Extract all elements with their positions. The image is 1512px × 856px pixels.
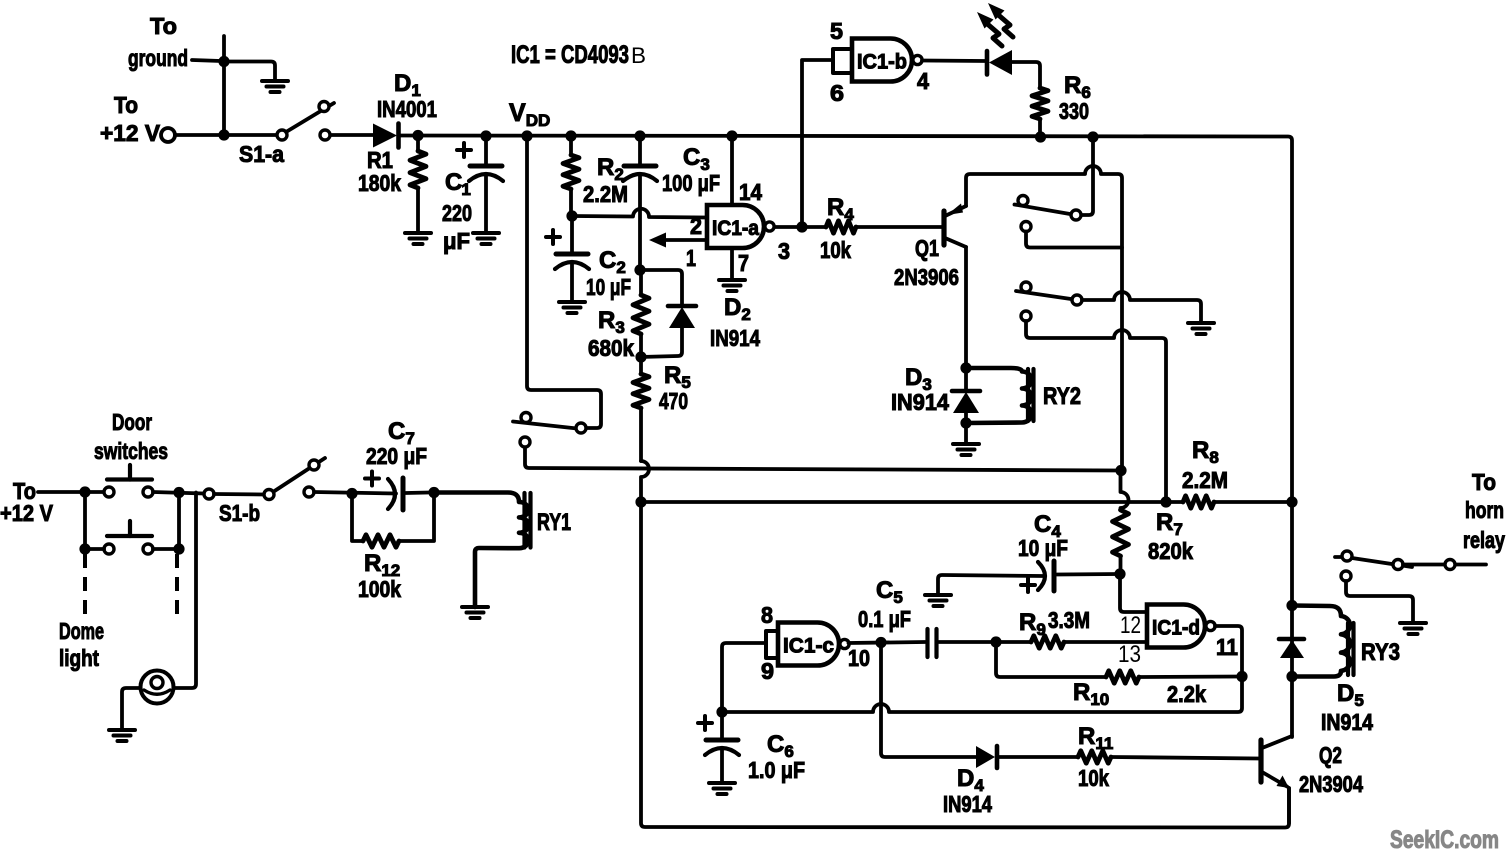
resistor R11 10k — [1078, 751, 1111, 763]
svg-text:11: 11 — [1216, 634, 1238, 660]
ground (R1) — [405, 231, 431, 235]
relay RY2 contact set 1: pole — [1015, 205, 1071, 215]
svg-text:+12 V: +12 V — [0, 500, 54, 526]
relay RY3 contact: NC contact — [1341, 571, 1351, 581]
svg-text:820k: 820k — [1148, 538, 1193, 564]
node: pin10 node — [875, 637, 886, 648]
node: Q1 collector / RY2 coil / D3 junction — [960, 362, 971, 373]
wire: C5 to R9 — [939, 640, 1031, 644]
switch S1-b throw contact — [304, 487, 314, 497]
wire: antenna stub above ground junction — [222, 36, 226, 61]
svg-text:relay: relay — [1463, 527, 1505, 553]
wire: C7 to RY1 coil — [406, 491, 429, 495]
resistor R9 3.3M — [1031, 636, 1064, 648]
relay RY1 contact: pole — [521, 413, 531, 423]
LED (flashing indicator) — [985, 51, 990, 75]
wire: R10 to pin11 node — [1139, 675, 1242, 679]
label: + (C7) — [365, 477, 379, 481]
wire: IC1-c input feed from C6 node — [722, 643, 766, 712]
svg-text:2: 2 — [690, 213, 702, 239]
svg-text:3.3M: 3.3M — [1048, 607, 1090, 633]
node: sense line / R7 junction — [1115, 465, 1126, 476]
node: RY3 bottom / Q2 collector junction — [1286, 671, 1297, 682]
wire: R10 branch from C5 node — [996, 642, 1106, 677]
svg-text:Dome: Dome — [59, 618, 104, 644]
svg-text:6: 6 — [830, 80, 844, 106]
svg-text:10 μF: 10 μF — [586, 274, 631, 300]
label: + (C2) — [546, 235, 560, 239]
ground (pin 7) — [719, 278, 745, 282]
svg-text:1: 1 — [686, 245, 696, 271]
svg-text:2.2M: 2.2M — [1182, 467, 1228, 493]
gate IC1-b input tie bracket (pins 5,6) — [833, 49, 852, 73]
relay coil RY3 — [1292, 606, 1350, 677]
wire: junction to D2 cathode — [640, 270, 682, 305]
node: ground-tap junction — [218, 56, 229, 67]
resistor R10 2.2k — [1106, 671, 1139, 683]
svg-text:470: 470 — [659, 388, 688, 414]
ground (C1) — [473, 231, 499, 235]
svg-text:10k: 10k — [820, 237, 851, 263]
relay RY2 contact set 1: NC contact and wire — [1021, 222, 1031, 232]
wire: dashed body connection right — [175, 554, 179, 620]
wire: junction to ground symbol — [224, 62, 275, 82]
node: door switch junction bottom-left — [79, 543, 90, 554]
resistor R2 2.2M — [569, 136, 573, 155]
wire: R9 to IC1-d pin 13 — [1064, 640, 1147, 644]
relay RY3 contact: throw — [1393, 560, 1403, 570]
relay RY2 contact set 1: throw contact — [1071, 210, 1081, 220]
wire: To-ground lead — [192, 60, 221, 61]
ground (C4) — [925, 593, 951, 597]
wire: dashed body connection left — [83, 554, 87, 618]
switch S1-b blade — [273, 458, 325, 492]
svg-text:14: 14 — [739, 179, 762, 205]
switch S1-b pole contact — [204, 489, 214, 499]
wire: to horn relay — [1403, 563, 1486, 567]
svg-text:S1-b: S1-b — [219, 500, 260, 526]
wire: VDD rail (D1 to top-right corner, down right side to Q2 collector) — [400, 136, 1292, 738]
wire: between PB1 and S1-b — [153, 492, 204, 494]
relay RY3 contact: pole stub — [1335, 555, 1342, 559]
diode D5 IN914 — [1279, 637, 1304, 642]
wire: IC1-c output to C5 — [849, 642, 926, 643]
svg-text:IC1-d: IC1-d — [1152, 617, 1200, 640]
capacitor C4 10uF (polarized) — [1038, 562, 1045, 590]
node: rail junction at R1 — [412, 130, 423, 141]
svg-text:light: light — [59, 645, 99, 671]
lamp: dome light bulb — [141, 671, 174, 704]
svg-text:5: 5 — [830, 18, 843, 44]
wire: Q1 emitter line with hop, to right-hand drop — [966, 166, 1122, 471]
svg-text:IN914: IN914 — [1321, 709, 1373, 735]
svg-text:3: 3 — [778, 238, 790, 264]
node: door switch junction top-left — [79, 486, 90, 497]
gate IC1-b (NAND) — [852, 39, 912, 82]
wire: S1-b pole link — [214, 492, 264, 496]
svg-text:220: 220 — [442, 200, 472, 226]
svg-text:100k: 100k — [358, 576, 401, 602]
relay RY3 contact: blade — [1352, 558, 1412, 567]
wire: to ground — [964, 423, 968, 444]
svg-text:180k: 180k — [358, 170, 401, 196]
node: C3/R3/D2 junction — [634, 264, 645, 275]
resistor R8 2.2M — [1166, 500, 1183, 504]
resistor R6 330 — [1032, 88, 1048, 119]
svg-text:μF: μF — [443, 228, 470, 254]
ground (RY1) — [462, 605, 488, 609]
node: C7/R12 right junction — [428, 487, 439, 498]
arrow: pin1 points to C3/R3 node — [649, 233, 666, 248]
ground (dome light) — [109, 728, 135, 732]
wire: IC1-a pin2 line with hop over C3 line — [572, 209, 707, 218]
resistor R1 180k — [416, 136, 420, 152]
resistor R12 100k (parallel loop) — [352, 494, 363, 542]
svg-text:IN914: IN914 — [710, 325, 760, 351]
wire: IC1-d output down to feedback node — [1215, 626, 1242, 677]
transistor Q1 2N3906 (PNP) — [941, 211, 946, 245]
node: NC2 drop junction — [1160, 496, 1171, 507]
svg-text:2.2k: 2.2k — [1167, 681, 1206, 707]
switch S1-a throw contact — [320, 130, 330, 140]
gate IC1-d (NAND) — [1147, 605, 1205, 648]
svg-text:switches: switches — [94, 438, 168, 464]
node: rail junction at C1 — [480, 130, 491, 141]
svg-text:IN4001: IN4001 — [377, 96, 437, 122]
wire: feedback line to C6 node with hop — [722, 677, 1242, 713]
svg-text:B: B — [631, 43, 646, 68]
wire: pin10 node down to D4 — [881, 643, 976, 758]
capacitor C7 220uF (polarized) — [388, 479, 395, 509]
wire: +12V to S1-a — [175, 133, 277, 137]
capacitor C5 0.1uF — [925, 629, 929, 657]
svg-text:IN914: IN914 — [943, 791, 992, 817]
svg-text:7: 7 — [738, 250, 749, 276]
wire: NC contact to ground — [1346, 581, 1413, 623]
node: C5/R9/R10 junction — [990, 636, 1001, 647]
relay RY1 contact: blade — [513, 422, 577, 429]
svg-text:2N3906: 2N3906 — [894, 264, 959, 290]
diode D2 IN914 — [668, 304, 696, 309]
diode D3 IN914 — [964, 368, 968, 391]
label: + (C4) — [1021, 583, 1035, 587]
ground (C6) — [709, 781, 735, 785]
gate IC1-a (NAND) — [707, 205, 764, 248]
node: door switch junction top-right — [173, 487, 184, 498]
svg-text:2N3904: 2N3904 — [1299, 771, 1363, 797]
svg-text:4: 4 — [917, 68, 929, 94]
capacitor C3 100uF — [638, 136, 642, 166]
switch S1-a upper contact — [319, 102, 329, 112]
svg-text:10: 10 — [848, 645, 870, 671]
relay RY2 contact set 2: NC contact and wire with hop — [1021, 311, 1031, 321]
wire: junction to IC1-d pin 12 — [1120, 574, 1147, 612]
svg-text:+12 V: +12 V — [100, 120, 161, 146]
transistor Q2 2N3904 (NPN) — [1258, 740, 1263, 782]
relay RY2 contact set 2: pole — [1016, 291, 1071, 299]
node: +12V / ground-tap junction — [218, 129, 229, 140]
svg-text:10 μF: 10 μF — [1018, 535, 1068, 561]
wire: pin 14 stub — [730, 136, 734, 205]
ground (RY2 throw 2) — [1188, 321, 1214, 325]
relay RY2 contact set 2: throw contact — [1072, 295, 1082, 305]
wire: IC1-a pin1 arrow line — [663, 238, 707, 242]
wire: right parallel drop — [177, 493, 181, 550]
svg-text:0.1 μF: 0.1 μF — [858, 606, 911, 632]
svg-text:Q1: Q1 — [915, 235, 939, 261]
node: C7/R12 left junction — [346, 488, 357, 499]
svg-text:To: To — [1472, 469, 1496, 495]
svg-text:To: To — [150, 13, 177, 39]
relay RY1 contact: NC contact — [520, 437, 530, 447]
svg-text:680k: 680k — [588, 335, 634, 361]
wire: lamp to ground — [122, 688, 141, 730]
node: junction R5 line / timing line — [635, 496, 646, 507]
svg-text:IC1-a: IC1-a — [712, 217, 759, 240]
wire: R11 to Q2 base — [1111, 757, 1259, 759]
node: pin3 / IC1-b feed junction — [796, 221, 807, 232]
svg-text:330: 330 — [1059, 98, 1089, 124]
diode D1 IN4001 — [373, 124, 397, 148]
wire: timing line (R5 node to R8) — [641, 500, 1161, 504]
svg-text:IC1-b: IC1-b — [857, 51, 907, 74]
node: rail junction at RY2 contact feed — [1087, 131, 1098, 142]
svg-text:13: 13 — [1118, 641, 1141, 668]
wire: C4 to ground arm — [938, 575, 1043, 595]
relay RY1 contact: throw — [576, 423, 586, 433]
node: RY3 top junction — [1286, 600, 1297, 611]
svg-text:10k: 10k — [1078, 765, 1109, 791]
wire: D4 to R11 — [999, 755, 1078, 759]
svg-text:RY3: RY3 — [1361, 639, 1400, 666]
node: R7 / C4 / pin12 junction — [1114, 568, 1125, 579]
wire: left vertical down to bottom rail over to Q2 emitter — [641, 502, 1289, 828]
svg-text:Door: Door — [112, 409, 152, 435]
relay coil RY2 — [966, 368, 1032, 423]
svg-text:2.2M: 2.2M — [583, 181, 628, 207]
node: rail junction at C3 — [634, 130, 645, 141]
ground (horn relay NC) — [1400, 621, 1426, 625]
gate IC1-c (NAND) — [778, 623, 839, 666]
wire: IC1-b output to LED — [922, 59, 986, 63]
wire: long sense line (RY1 NC to R7 top) — [525, 447, 1121, 471]
svg-text:RY1: RY1 — [537, 509, 571, 536]
terminal: horn relay wire circle — [1445, 560, 1455, 570]
ground (D3/RY2) — [953, 442, 979, 446]
wire: R5 line hop over NC contact line, down to lower junction — [641, 461, 649, 502]
svg-text:IN914: IN914 — [891, 389, 949, 415]
node: D3 anode / RY2 coil return junction — [960, 417, 971, 428]
gate IC1-c input tie bracket (pins 8,9) — [766, 631, 778, 658]
wire: +12V lead to door switches — [38, 490, 104, 494]
wire: D2 anode to R3/R5 node — [640, 328, 682, 357]
relay RY3 contact: pole — [1342, 551, 1352, 561]
wire: S1-b to C7 — [314, 492, 396, 494]
svg-text:8: 8 — [761, 602, 773, 628]
terminal: +12V input circle — [161, 128, 175, 142]
wire: junction drop from ground tap — [222, 62, 226, 136]
svg-text:100 μF: 100 μF — [662, 170, 720, 196]
node: pin11 / R10 / feedback junction — [1236, 671, 1247, 682]
svg-text:RY2: RY2 — [1043, 383, 1081, 410]
switch S1-a blade — [286, 103, 334, 132]
node: R8 / VDD right rail junction — [1286, 496, 1297, 507]
wire: rail to RY2 throw contact 1 — [1081, 137, 1093, 215]
node: door switch junction bottom-right — [173, 543, 184, 554]
diode D4 IN914 — [976, 746, 995, 768]
wire: S1-a to D1 — [331, 133, 374, 137]
LED emission arrows — [988, 25, 1002, 47]
svg-text:IC1-c: IC1-c — [783, 635, 834, 658]
switch S1-b upper contact — [309, 460, 319, 470]
svg-text:1.0 μF: 1.0 μF — [748, 757, 805, 783]
wire: VDD drop to RY1 throw contact — [527, 136, 601, 428]
capacitor C6 1.0uF — [720, 712, 724, 740]
switch S1-b pivot contact — [264, 490, 274, 500]
node: rail junction at R2 — [565, 130, 576, 141]
ground (C2) — [559, 300, 585, 304]
svg-text:12: 12 — [1120, 612, 1141, 639]
resistor R3 680k — [633, 295, 649, 334]
wire: throw 2 to ground with hop — [1082, 292, 1201, 323]
wire: junction to C4 — [1057, 572, 1120, 576]
svg-text:S1-a: S1-a — [239, 141, 284, 167]
svg-text:To: To — [114, 92, 138, 118]
resistor R4 10k — [826, 221, 856, 233]
svg-text:IC1 = CD4093: IC1 = CD4093 — [511, 41, 629, 69]
svg-text:SeekIC.com: SeekIC.com — [1390, 826, 1499, 854]
capacitor C2 10uF — [570, 216, 574, 254]
wire: feed up to IC1-b inputs (crosses rail) — [802, 60, 833, 227]
node: R3/R5/D2 junction — [635, 351, 646, 362]
svg-text:Q2: Q2 — [1319, 742, 1342, 768]
node: rail junction at pin14 — [726, 130, 737, 141]
door switch 1 (N.O. pushbutton) — [104, 487, 114, 497]
wire: IC1-a output to R4 — [775, 225, 826, 229]
label: + (C1) — [457, 148, 471, 152]
svg-text:9: 9 — [761, 658, 774, 684]
svg-text:220 μF: 220 μF — [366, 443, 427, 469]
svg-text:ground: ground — [128, 45, 188, 71]
switch S1-a pole contact — [277, 130, 287, 140]
resistor R7 820k with hop over lower line — [1121, 471, 1129, 509]
wire: dome light feed — [174, 493, 197, 689]
node: R2/C2/pin2 junction — [566, 210, 577, 221]
label: + (C6) — [698, 721, 712, 725]
node: rail junction at R6 — [1035, 131, 1046, 142]
wire: R4 to Q1 base — [856, 225, 942, 229]
node: C6 / feedback junction — [716, 706, 727, 717]
svg-text:horn: horn — [1465, 497, 1504, 523]
node: rail junction at VDD drop to RY1 contacts — [521, 130, 532, 141]
capacitor C1 220uF — [484, 136, 488, 166]
wire: left parallel drop — [83, 492, 87, 549]
ground (top-left) — [262, 79, 288, 83]
resistor R5 470 — [633, 374, 649, 408]
wire: pin 7 stub — [730, 248, 734, 280]
door switch 2 (N.O. pushbutton) — [104, 544, 114, 554]
relay coil RY1 — [434, 493, 529, 608]
wire: LED anode to R6 — [1012, 62, 1040, 88]
